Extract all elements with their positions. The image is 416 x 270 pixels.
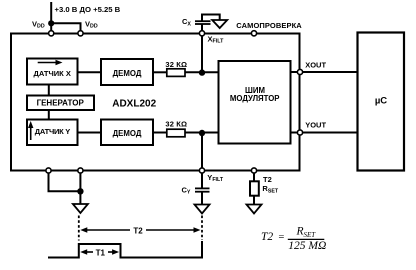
svg-text:YOUT: YOUT — [305, 120, 326, 129]
wire CX to XFILT pin — [201, 24, 203, 31]
ground for CX — [212, 20, 227, 28]
label ШИМ МОДУЛЯТОР — [230, 86, 280, 103]
dimension T2 line right segment — [146, 227, 201, 232]
wire supply to VDD left — [50, 23, 52, 31]
demod box Y ДЕМОД — [101, 120, 153, 146]
resistor RY 32k — [167, 129, 185, 137]
capacitor CX — [195, 21, 211, 24]
wire YOUT to uC — [303, 132, 358, 134]
svg-text:МОДУЛЯТОР: МОДУЛЯТОР — [230, 94, 280, 103]
dimension T1 left arrow — [80, 249, 93, 254]
pin VDD left — [49, 31, 54, 36]
svg-text:ADXL202: ADXL202 — [112, 98, 156, 109]
svg-text:+3.0 В ДО +5.25 В: +3.0 В ДО +5.25 В — [55, 5, 121, 14]
outer box U1 ADXL202 outline — [11, 34, 300, 171]
node XFILT junction dot — [199, 69, 205, 75]
svg-text:125 МΩ: 125 МΩ — [288, 240, 326, 252]
resistor RX 32k — [167, 69, 185, 77]
wire generator to sensor Y — [48, 110, 50, 120]
wire node XFILT to PWM modulator — [202, 71, 219, 73]
formula T2 equals RSET over 125 MOhm — [261, 226, 326, 252]
wire resistor RY to node YFILT — [185, 132, 202, 134]
dashed line T2 right — [201, 216, 203, 241]
svg-text:XOUT: XOUT — [305, 60, 326, 69]
wire sensor Y to demod Y — [78, 132, 102, 134]
svg-text:ДЕМОД: ДЕМОД — [113, 69, 142, 78]
sensor box ДАТЧИК X — [27, 59, 78, 85]
pin YFILT — [199, 168, 204, 173]
dimension T1 right arrow — [108, 249, 119, 254]
capacitor CX wire top — [202, 15, 220, 21]
svg-text:САМОПРОВЕРКА: САМОПРОВЕРКА — [236, 21, 302, 30]
pin XOUT — [297, 69, 302, 74]
sensor box ДАТЧИК Y — [27, 120, 78, 146]
wire COM left down and right — [49, 173, 81, 191]
generator box ГЕНЕРАТОР — [27, 96, 94, 111]
wire RSET to ground — [253, 196, 255, 204]
wire T2 pin to RSET — [253, 173, 255, 181]
junction supply dot — [48, 20, 54, 26]
svg-text:32 КΩ: 32 КΩ — [165, 60, 187, 69]
ground for COM — [73, 204, 88, 213]
svg-text:=: = — [278, 232, 285, 243]
svg-text:T1: T1 — [96, 248, 106, 257]
junction COM dot — [77, 188, 83, 194]
pin VDD right — [78, 31, 83, 36]
pin XFILT — [199, 31, 204, 36]
dimension T2 line left segment — [80, 227, 130, 232]
capacitor CY — [195, 188, 210, 191]
svg-text:T2: T2 — [133, 226, 143, 235]
wire sensor X to demod X — [78, 71, 102, 73]
wire sensor X to generator — [48, 85, 50, 96]
ground for RSET — [247, 205, 262, 214]
pin COM right — [78, 168, 83, 173]
svg-text:ДАТЧИК X: ДАТЧИК X — [34, 69, 71, 78]
node YFILT junction dot — [199, 130, 205, 136]
wire CY to ground — [201, 192, 203, 204]
svg-text:32 КΩ: 32 КΩ — [165, 120, 187, 129]
demod box X ДЕМОД — [101, 59, 153, 85]
wire node YFILT to PWM modulator — [202, 132, 219, 134]
wire PWM to XOUT pin — [291, 71, 298, 73]
wire COM right down — [79, 173, 81, 204]
svg-text:T2: T2 — [263, 175, 272, 184]
microcontroller box uC — [358, 33, 405, 171]
pin self-test — [251, 31, 256, 36]
svg-text:ДАТЧИК Y: ДАТЧИК Y — [35, 127, 71, 136]
wire XOUT to uC — [303, 71, 358, 73]
arrow inside sensor Y — [28, 121, 33, 140]
resistor RSET — [250, 181, 259, 195]
wire resistor RX to node XFILT — [185, 71, 202, 73]
wire demod Y to resistor RY — [153, 132, 167, 134]
svg-text:ГЕНЕРАТОР: ГЕНЕРАТОР — [37, 99, 85, 108]
wire YFILT pin to capacitor CY — [201, 173, 203, 188]
pin T2 — [251, 168, 256, 173]
wire PWM to YOUT pin — [291, 132, 298, 134]
wire supply vertical — [50, 2, 52, 23]
svg-text:µС: µС — [375, 96, 387, 107]
svg-text:ДЕМОД: ДЕМОД — [113, 129, 142, 138]
svg-text:T2: T2 — [261, 231, 273, 243]
dashed line T2 left — [78, 216, 80, 241]
wire node YFILT down to pin — [201, 133, 203, 169]
pin COM left — [46, 168, 51, 173]
arrow inside sensor X — [38, 60, 63, 65]
ground for CY — [195, 205, 210, 214]
pin YOUT — [297, 130, 302, 135]
PWM modulator box ШИМ МОДУЛЯТОР — [219, 61, 291, 144]
waveform square wave — [48, 241, 202, 258]
wire node XFILT up to pin — [201, 36, 203, 73]
wire supply to VDD right — [51, 23, 80, 31]
wire demod X to resistor RX — [153, 71, 167, 73]
